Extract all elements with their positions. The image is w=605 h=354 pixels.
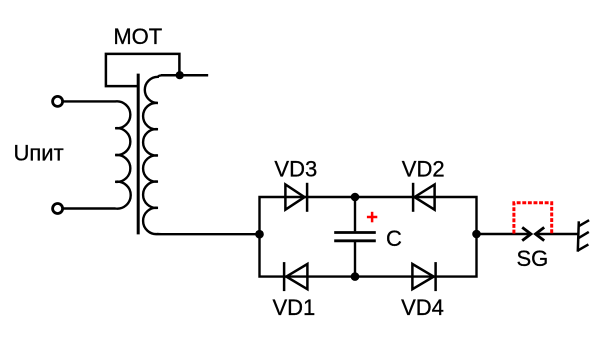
wire secondary top stub <box>161 74 208 77</box>
diode VD1 <box>284 262 307 291</box>
transformer T1 primary winding with leads <box>62 101 131 208</box>
wire secondary-top to core bracket <box>106 54 179 86</box>
terminal circle bottom <box>53 204 63 214</box>
node dot bridge right <box>472 230 481 239</box>
svg-text:SG: SG <box>517 246 549 271</box>
diode VD3 <box>285 183 307 212</box>
transformer T1 core <box>137 74 140 235</box>
svg-text:VD1: VD1 <box>273 295 316 320</box>
transformer T1 secondary winding with leads <box>143 75 259 234</box>
wire right node to spark gap <box>477 233 531 235</box>
polarity plus mark <box>367 212 377 223</box>
ground chassis symbol <box>578 220 590 252</box>
wire spark gap to ground <box>536 233 578 235</box>
svg-text:C: C <box>386 226 402 251</box>
spark gap dashed red box <box>514 203 552 234</box>
node dot bridge bottom <box>351 272 360 281</box>
svg-text:МОТ: МОТ <box>113 24 162 49</box>
svg-text:VD4: VD4 <box>401 295 444 320</box>
node dot bridge top <box>351 193 360 202</box>
diode VD2 <box>413 183 435 212</box>
bridge rectangle wires <box>260 197 477 277</box>
capacitor C plates <box>334 231 376 234</box>
spark gap arrow right <box>536 227 545 240</box>
capacitor C wires <box>354 197 356 231</box>
node junction dot secondary-top <box>176 71 184 79</box>
diode VD4 <box>412 262 435 291</box>
spark gap arrow left <box>522 227 531 240</box>
svg-text:VD3: VD3 <box>274 156 317 181</box>
node dot bridge left <box>255 230 264 239</box>
svg-text:Uпит: Uпит <box>14 141 64 166</box>
terminal circle top <box>53 96 63 106</box>
svg-text:VD2: VD2 <box>402 156 445 181</box>
